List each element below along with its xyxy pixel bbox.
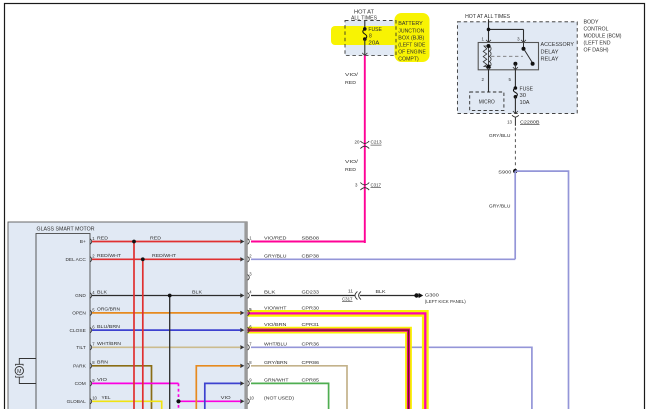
svg-text:WHT/BRN: WHT/BRN: [97, 341, 122, 347]
svg-text:GRY/BLU: GRY/BLU: [489, 133, 511, 139]
svg-text:HOT AT ALL TIMES: HOT AT ALL TIMES: [465, 14, 511, 20]
svg-text:GRY/BLU: GRY/BLU: [264, 253, 287, 259]
svg-text:B+: B+: [80, 239, 86, 245]
svg-text:11: 11: [348, 288, 354, 293]
svg-text:ALL TIMES: ALL TIMES: [351, 16, 378, 22]
svg-text:DEL ACC: DEL ACC: [65, 257, 86, 263]
svg-text:GND: GND: [75, 293, 86, 299]
svg-text:CPR86: CPR86: [302, 360, 320, 366]
svg-text:RED: RED: [150, 235, 162, 241]
svg-text:VIO/WHT: VIO/WHT: [264, 306, 287, 312]
svg-text:RED/WHT: RED/WHT: [97, 253, 121, 259]
svg-text:PARK: PARK: [73, 364, 87, 370]
svg-text:SBB08: SBB08: [302, 236, 320, 242]
svg-text:OPEN: OPEN: [72, 311, 86, 317]
svg-text:RELAY: RELAY: [541, 56, 560, 62]
svg-text:GD233: GD233: [302, 290, 320, 296]
svg-text:(LEFT SIDE: (LEFT SIDE: [398, 43, 426, 49]
svg-text:CPR85: CPR85: [302, 377, 320, 383]
svg-text:BATTERY: BATTERY: [398, 21, 423, 27]
svg-text:CPR36: CPR36: [302, 341, 320, 347]
svg-text:MODULE (BCM): MODULE (BCM): [584, 34, 622, 40]
svg-text:ORG/BRN: ORG/BRN: [97, 307, 121, 313]
svg-text:8: 8: [369, 34, 372, 40]
svg-text:20: 20: [355, 140, 360, 145]
svg-text:DELAY: DELAY: [541, 49, 560, 55]
svg-text:VIO/: VIO/: [345, 72, 359, 78]
svg-text:BRN: BRN: [97, 360, 109, 366]
svg-text:YEL: YEL: [102, 395, 111, 401]
svg-text:10: 10: [249, 396, 254, 401]
svg-text:10: 10: [92, 396, 97, 401]
svg-text:M: M: [17, 369, 21, 375]
svg-text:G300: G300: [425, 292, 439, 298]
svg-text:RED: RED: [97, 235, 109, 241]
svg-text:GLOBAL: GLOBAL: [67, 399, 87, 405]
svg-text:OF DASH): OF DASH): [584, 48, 609, 54]
svg-text:MICRO: MICRO: [479, 99, 495, 105]
svg-text:WHT/BLU: WHT/BLU: [264, 341, 288, 347]
svg-text:FUSE: FUSE: [520, 87, 534, 93]
svg-text:ACCESSORY: ACCESSORY: [541, 42, 575, 48]
svg-text:JUNCTION: JUNCTION: [398, 28, 424, 34]
svg-text:RED: RED: [345, 167, 357, 173]
svg-text:C317: C317: [371, 182, 382, 187]
svg-text:GRN/WHT: GRN/WHT: [264, 377, 289, 383]
svg-text:BLU/BRN: BLU/BRN: [97, 324, 121, 330]
svg-text:VIO: VIO: [97, 377, 107, 383]
svg-text:(NOT USED): (NOT USED): [264, 395, 294, 401]
svg-text:RED: RED: [345, 80, 357, 86]
svg-text:VIO/: VIO/: [345, 159, 359, 165]
svg-text:30: 30: [520, 93, 527, 99]
svg-text:GRY/BLU: GRY/BLU: [489, 204, 511, 210]
svg-text:CBP38: CBP38: [302, 253, 320, 259]
svg-text:FUSE: FUSE: [368, 27, 382, 33]
svg-text:TILT: TILT: [76, 345, 86, 351]
svg-text:GLASS SMART MOTOR: GLASS SMART MOTOR: [37, 227, 95, 233]
svg-text:(LEFT END: (LEFT END: [584, 41, 611, 47]
svg-text:RED/WHT: RED/WHT: [152, 253, 176, 259]
svg-text:C2280B: C2280B: [520, 119, 540, 124]
svg-text:CPR31: CPR31: [302, 322, 320, 328]
svg-text:COM: COM: [75, 381, 86, 387]
svg-text:CONTROL: CONTROL: [584, 26, 609, 32]
svg-text:HOT AT: HOT AT: [354, 9, 374, 15]
svg-text:VIO/RED: VIO/RED: [264, 236, 287, 242]
svg-text:20A: 20A: [368, 40, 380, 46]
svg-text:CLOSE: CLOSE: [70, 328, 86, 334]
svg-text:C213: C213: [371, 140, 383, 145]
svg-text:BLK: BLK: [192, 289, 203, 295]
svg-text:VIO: VIO: [221, 395, 231, 401]
svg-text:BOX (BJB): BOX (BJB): [398, 35, 424, 41]
svg-text:(LEFT KICK PANEL): (LEFT KICK PANEL): [425, 299, 466, 304]
svg-text:13: 13: [507, 119, 512, 124]
svg-text:OF ENGINE: OF ENGINE: [398, 50, 426, 56]
svg-text:VIO/BRN: VIO/BRN: [264, 322, 287, 328]
svg-text:CPR30: CPR30: [302, 306, 320, 312]
svg-text:S900: S900: [498, 169, 511, 175]
svg-text:COMPT): COMPT): [398, 57, 419, 63]
svg-text:C317: C317: [342, 296, 353, 301]
svg-text:10A: 10A: [520, 100, 531, 106]
svg-text:GRY/BRN: GRY/BRN: [264, 360, 288, 366]
svg-text:BLK: BLK: [264, 290, 276, 296]
svg-text:BODY: BODY: [584, 19, 600, 25]
svg-text:BLK: BLK: [97, 289, 108, 295]
svg-text:BLK: BLK: [376, 289, 387, 295]
